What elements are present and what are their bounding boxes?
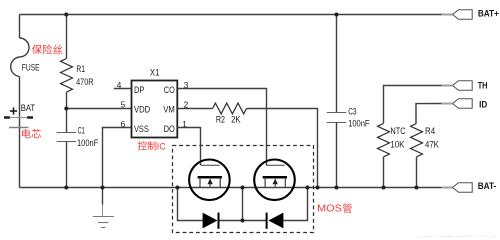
wire battery to bottom rail: [19, 118, 21, 188]
svg-text:5: 5: [121, 99, 126, 109]
svg-text:47K: 47K: [425, 138, 440, 149]
svg-text:R1: R1: [76, 63, 85, 74]
wire VDD row: [67, 108, 132, 110]
svg-text:470R: 470R: [76, 76, 94, 87]
wire diode row right riser: [283, 188, 307, 221]
wire ID row: [416, 104, 453, 124]
battery cell plate short: [9, 127, 29, 129]
svg-text:2K: 2K: [231, 114, 241, 125]
wire C3 top: [336, 15, 338, 113]
svg-text:R2: R2: [216, 114, 225, 125]
diode D1: [203, 213, 218, 229]
battery plus sign: [10, 110, 17, 112]
transistor Q1 MOSFET: [189, 160, 230, 201]
svg-text:BAT-: BAT-: [478, 180, 497, 191]
resistor NTC: [378, 124, 390, 157]
svg-text:NTC: NTC: [390, 125, 405, 136]
port BAT-: [453, 183, 473, 193]
svg-text:C3: C3: [348, 105, 356, 116]
svg-text:MOS: MOS: [317, 203, 342, 215]
wire DP stub pin4: [114, 88, 132, 90]
svg-text:ID: ID: [479, 98, 487, 109]
port TH: [453, 81, 473, 91]
svg-text:10K: 10K: [390, 138, 405, 149]
wire C3 to rail: [336, 123, 338, 188]
svg-text:VDD: VDD: [134, 104, 150, 115]
junction dots: [64, 13, 68, 17]
svg-text:100nF: 100nF: [348, 118, 370, 129]
svg-text:6: 6: [121, 119, 126, 129]
wire VM pin2 to R2: [177, 108, 212, 110]
wire R4 to rail: [416, 157, 418, 188]
capacitor C3: [327, 112, 346, 114]
wire bottom BAT- rail: [20, 187, 453, 189]
wire C1 to rail: [66, 142, 68, 188]
svg-text:100nF: 100nF: [77, 137, 99, 148]
wire R1 bottom to C1: [66, 92, 68, 133]
svg-text:CO: CO: [164, 84, 175, 95]
svg-text:IC: IC: [157, 141, 166, 152]
svg-text:DP: DP: [134, 84, 144, 95]
diode D2: [268, 213, 283, 229]
battery BAT cell plate long: [4, 117, 33, 119]
fuse: [11, 38, 29, 77]
wire R2 to rail: [247, 109, 318, 188]
svg-text:DO: DO: [164, 123, 175, 134]
resistor R2: [213, 103, 247, 114]
capacitor C1: [57, 132, 76, 134]
svg-text:FUSE: FUSE: [22, 62, 40, 73]
wire VSS pin6: [103, 128, 132, 188]
svg-text:www.sgtronics.com: www.sgtronics.com: [416, 233, 497, 237]
svg-text:VSS: VSS: [134, 123, 149, 134]
label 电芯: [22, 129, 31, 138]
label 控制IC: [138, 141, 147, 150]
svg-text:R4: R4: [425, 125, 435, 136]
dashed box MOS area: [173, 146, 314, 233]
op-amp U1: control IC X1 box: [132, 81, 178, 138]
wire light segs near ports: [442, 14, 453, 16]
wire DO pin1 to Q1 gate: [177, 128, 200, 166]
svg-text:VM: VM: [163, 104, 175, 115]
port ID: [453, 99, 473, 109]
svg-text:X1: X1: [150, 67, 160, 78]
svg-text:4: 4: [117, 80, 122, 90]
ground: [102, 188, 104, 205]
wire fuse to battery: [19, 77, 21, 118]
label 保险丝: [32, 45, 42, 55]
port BAT+: [453, 10, 473, 20]
wire TH row: [384, 86, 453, 124]
wire top BAT+ rail: [20, 14, 453, 16]
svg-text:TH: TH: [478, 79, 488, 90]
transistor Q2 MOSFET: [254, 160, 295, 201]
svg-text:C1: C1: [78, 125, 85, 136]
wire middle riser: [242, 188, 244, 221]
svg-text:BAT+: BAT+: [478, 7, 499, 18]
wire NTC to rail: [383, 157, 385, 188]
wire left rail upper: [19, 15, 21, 39]
wire diode row left riser: [178, 188, 203, 221]
svg-text:BAT: BAT: [21, 102, 36, 113]
wire CO pin3 to Q2 gate: [177, 89, 266, 166]
wire diode row middle: [219, 220, 267, 222]
resistor R4: [411, 124, 423, 157]
wire R1 top: [66, 15, 68, 59]
resistor R1: [61, 59, 73, 93]
